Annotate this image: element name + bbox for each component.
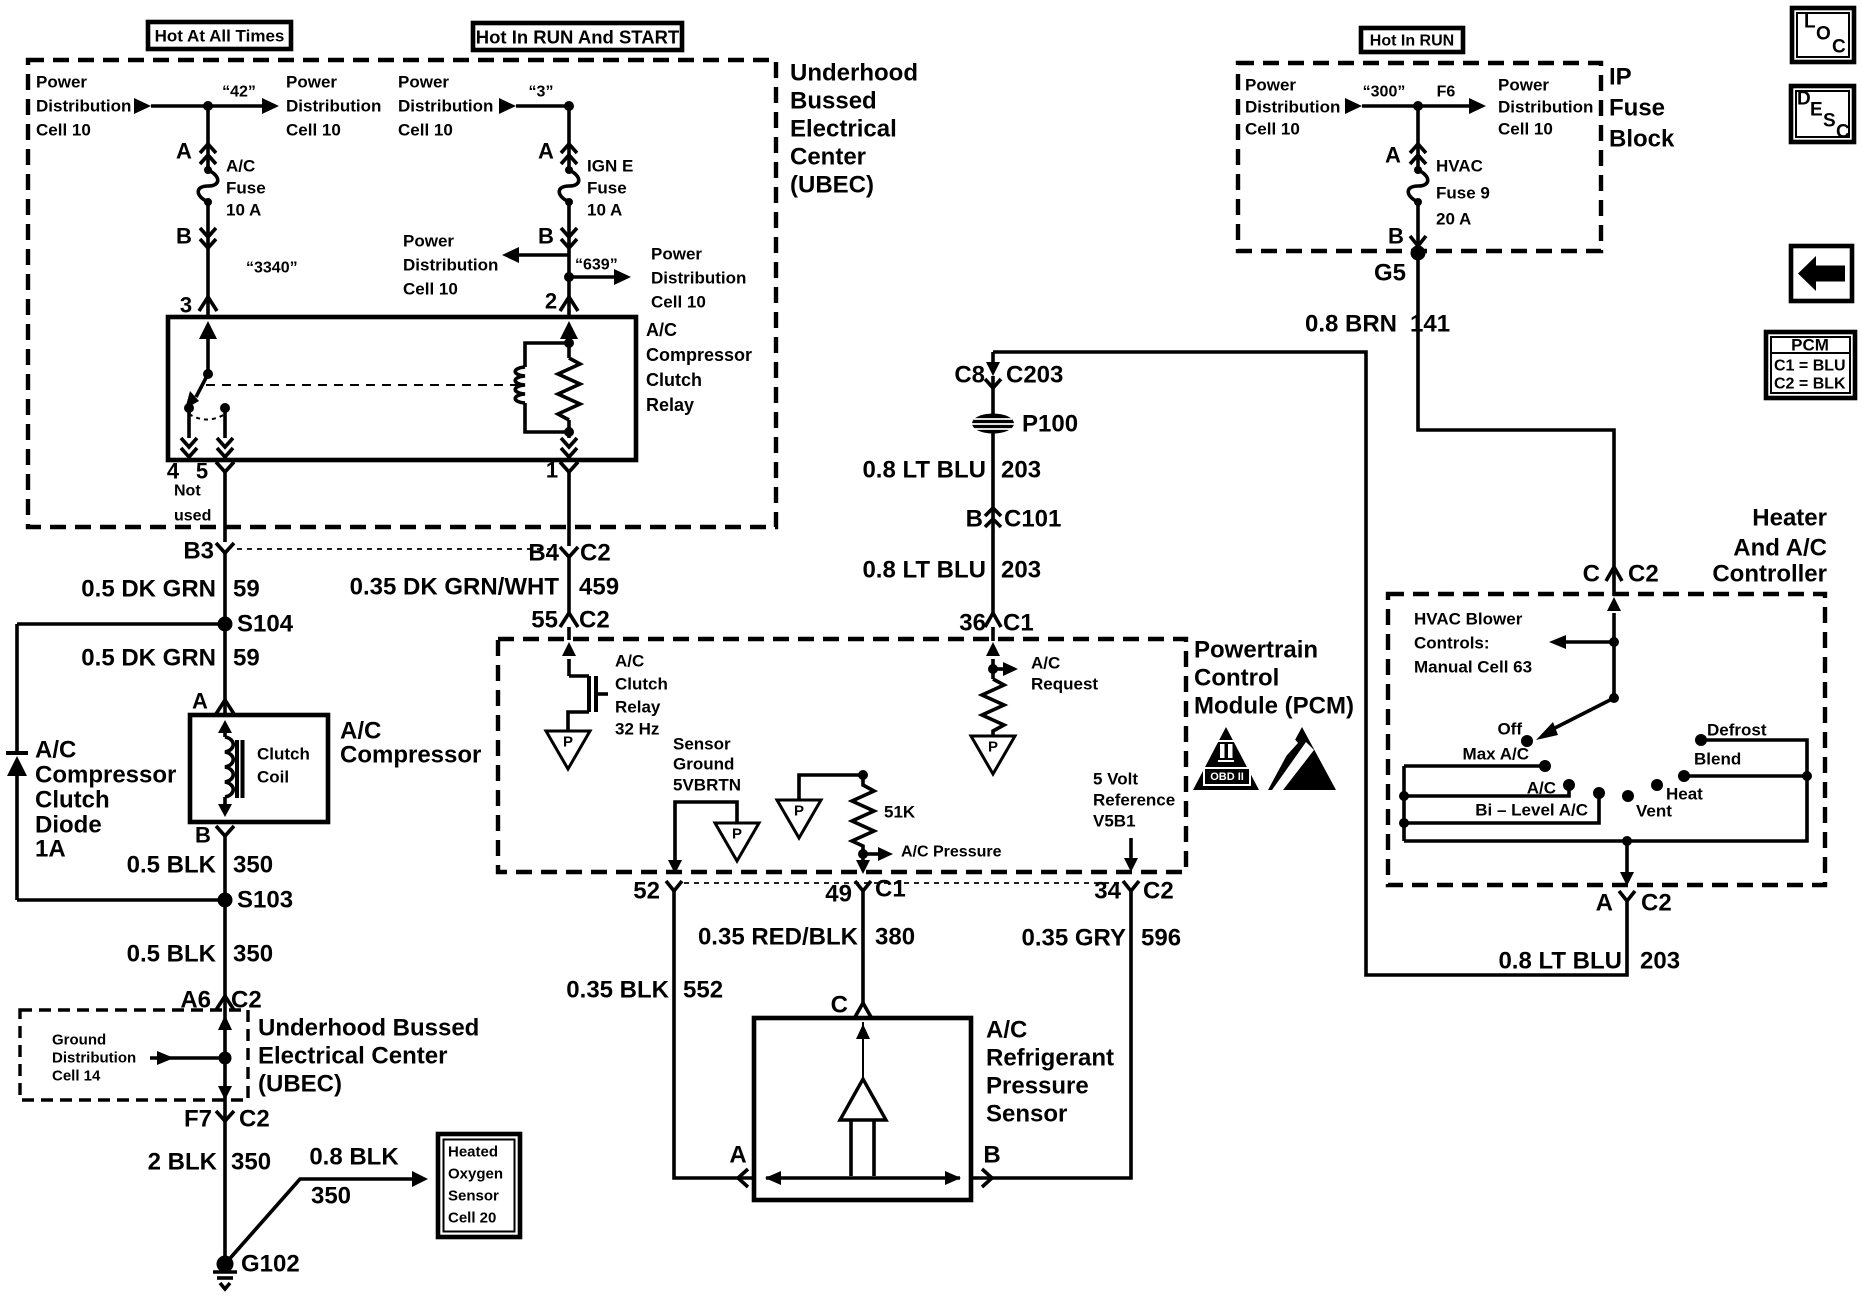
svg-text:Hot In RUN: Hot In RUN bbox=[1370, 33, 1454, 50]
svg-text:Distribution: Distribution bbox=[651, 269, 746, 288]
wire stem through C8 chevron bbox=[991, 376, 995, 388]
svg-text:Hot In RUN And START: Hot In RUN And START bbox=[476, 27, 680, 48]
node 639 junction bbox=[564, 272, 574, 282]
svg-text:10 A: 10 A bbox=[226, 201, 261, 220]
A/C Request tap arrow bbox=[993, 667, 1003, 671]
wire tap right 639 bbox=[569, 275, 614, 279]
label Power Distribution Cell 10 (feed B) bbox=[398, 73, 493, 140]
svg-text:A/C: A/C bbox=[615, 652, 644, 671]
svg-text:A: A bbox=[538, 139, 554, 164]
pin 52 chevron bbox=[666, 881, 682, 891]
Heater and A/C Controller dashed box bbox=[1388, 594, 1825, 885]
relay pin4 wire and arrows bbox=[187, 408, 191, 438]
svg-text:2 BLK: 2 BLK bbox=[148, 1149, 218, 1176]
svg-text:Reference: Reference bbox=[1093, 791, 1175, 810]
wire A/C contact to bus bbox=[1404, 785, 1569, 796]
svg-text:596: 596 bbox=[1141, 925, 1181, 952]
svg-text:Max A/C: Max A/C bbox=[1463, 745, 1529, 764]
pin B3 chevron bbox=[216, 543, 234, 553]
node 3 junction bbox=[564, 101, 574, 111]
svg-text:Distribution: Distribution bbox=[398, 97, 493, 116]
svg-text:“300”: “300” bbox=[1363, 84, 1406, 101]
svg-text:0.35 RED/BLK: 0.35 RED/BLK bbox=[698, 924, 859, 951]
wire Bi-Level contact to bus bbox=[1404, 793, 1599, 823]
fuse IGN E Fuse 10 A element bbox=[559, 166, 579, 206]
svg-text:Controller: Controller bbox=[1712, 561, 1827, 588]
UBEC dashed box bbox=[28, 60, 776, 527]
svg-text:Cell 10: Cell 10 bbox=[36, 121, 91, 140]
svg-text:“3340”: “3340” bbox=[246, 260, 298, 277]
svg-text:Block: Block bbox=[1609, 126, 1675, 153]
svg-text:G102: G102 bbox=[241, 1251, 300, 1278]
svg-text:C2: C2 bbox=[1641, 890, 1672, 917]
bus node at Bi-Level wire bbox=[1399, 818, 1409, 828]
wire Max A/C to left bus bbox=[1404, 764, 1545, 768]
pin A chevrons bbox=[200, 144, 216, 164]
svg-text:Fuse: Fuse bbox=[226, 179, 266, 198]
svg-text:C: C bbox=[831, 992, 848, 1019]
resistor A/C request bbox=[982, 679, 1004, 736]
A/C Request node bbox=[988, 664, 998, 674]
svg-text:O: O bbox=[1816, 24, 1831, 45]
svg-text:1A: 1A bbox=[35, 836, 66, 863]
svg-text:C1 = BLU: C1 = BLU bbox=[1774, 358, 1846, 375]
svg-text:B3: B3 bbox=[183, 538, 214, 565]
svg-text:Ground: Ground bbox=[673, 755, 734, 774]
pin 49 chevron bbox=[855, 881, 871, 891]
svg-text:Control: Control bbox=[1194, 665, 1279, 692]
svg-text:Distribution: Distribution bbox=[403, 256, 498, 275]
svg-text:Controls:: Controls: bbox=[1414, 634, 1490, 653]
pin A chevron compressor bbox=[216, 700, 234, 714]
svg-text:Cell 10: Cell 10 bbox=[398, 121, 453, 140]
relay contact pin 4 bbox=[184, 403, 194, 413]
pin C8 arrow down bbox=[991, 352, 995, 364]
switch arm to Off bbox=[1549, 698, 1614, 731]
svg-text:V5B1: V5B1 bbox=[1093, 812, 1136, 831]
svg-text:A: A bbox=[1385, 143, 1401, 168]
switch contact Vent bbox=[1622, 790, 1634, 802]
wire P100 to C101 bbox=[991, 433, 995, 509]
svg-text:Fuse: Fuse bbox=[1609, 95, 1665, 122]
svg-text:B: B bbox=[538, 224, 554, 249]
svg-text:Power: Power bbox=[403, 232, 454, 251]
label Underhood Bussed Electrical Center (UBEC) lower bbox=[258, 1015, 479, 1098]
label 5 Volt Reference V5B1 bbox=[1093, 770, 1175, 831]
svg-text:Module (PCM): Module (PCM) bbox=[1194, 693, 1354, 720]
svg-text:A/C: A/C bbox=[226, 157, 255, 176]
sensor internal triangle bbox=[840, 1079, 886, 1120]
svg-text:Distribution: Distribution bbox=[36, 97, 131, 116]
svg-text:0.35 DK GRN/WHT: 0.35 DK GRN/WHT bbox=[350, 574, 560, 601]
wire A6 through ground box to F7 bbox=[223, 1010, 227, 1111]
P ground triangle (51K) bbox=[777, 800, 821, 838]
wire node to arrow F6 bbox=[1418, 104, 1469, 108]
relay pin5 wire and arrows bbox=[223, 408, 227, 438]
relay contact pin 5 bbox=[220, 403, 230, 413]
svg-text:Cell 14: Cell 14 bbox=[52, 1068, 101, 1085]
svg-text:203: 203 bbox=[1001, 457, 1041, 484]
svg-text:Distribution: Distribution bbox=[52, 1050, 136, 1067]
svg-text:L: L bbox=[1804, 12, 1816, 33]
svg-text:Center: Center bbox=[790, 144, 866, 171]
svg-text:Bussed: Bussed bbox=[790, 88, 877, 115]
ground distribution node bbox=[219, 1052, 232, 1065]
svg-text:141: 141 bbox=[1410, 311, 1450, 338]
label Heated Oxygen Sensor Cell 20 bbox=[448, 1144, 503, 1227]
pin 55 chevron bbox=[560, 613, 578, 627]
arrow to heated oxygen sensor bbox=[412, 1171, 428, 1187]
label HVAC Blower Controls: Manual Cell 63 bbox=[1414, 610, 1532, 677]
svg-text:Clutch: Clutch bbox=[646, 370, 702, 390]
wire node 3 down to IGN E fuse bbox=[567, 106, 571, 170]
splice S104 bbox=[218, 617, 233, 632]
P ground triangle (clutch relay driver) bbox=[546, 731, 590, 769]
HVAC blower tap node bbox=[1609, 637, 1619, 647]
wire diode branch to S103 bbox=[17, 898, 225, 902]
svg-text:P: P bbox=[794, 803, 804, 820]
svg-text:380: 380 bbox=[875, 924, 915, 951]
relay actuating dashed line bbox=[206, 384, 517, 386]
svg-text:Distribution: Distribution bbox=[286, 97, 381, 116]
svg-text:“639”: “639” bbox=[575, 257, 618, 274]
svg-text:59: 59 bbox=[233, 576, 260, 603]
svg-text:Off: Off bbox=[1497, 720, 1522, 739]
svg-text:F6: F6 bbox=[1437, 84, 1456, 101]
pin B chevrons bbox=[200, 228, 216, 248]
svg-text:A/C: A/C bbox=[1031, 654, 1060, 673]
svg-text:350: 350 bbox=[311, 1183, 351, 1210]
fuse HVAC Fuse 9 20 A element bbox=[1408, 166, 1428, 206]
wire stem through F7 chevron bbox=[223, 1111, 227, 1121]
51K top node bbox=[858, 770, 868, 780]
svg-text:Cell 10: Cell 10 bbox=[651, 293, 706, 312]
arrow to Power Distribution Cell 10 bbox=[262, 98, 279, 114]
svg-text:59: 59 bbox=[233, 645, 260, 672]
svg-text:A/C: A/C bbox=[340, 718, 381, 745]
svg-text:4: 4 bbox=[167, 459, 180, 484]
svg-text:350: 350 bbox=[233, 941, 273, 968]
arrow left to Power Distribution bbox=[502, 247, 519, 263]
svg-text:IP: IP bbox=[1609, 64, 1632, 91]
legend box DESC bbox=[1791, 86, 1854, 143]
svg-text:Diode: Diode bbox=[35, 812, 102, 839]
svg-text:Cell 10: Cell 10 bbox=[286, 121, 341, 140]
diode branch lower wire bbox=[15, 776, 19, 900]
svg-text:Electrical: Electrical bbox=[790, 116, 897, 143]
svg-text:A: A bbox=[1596, 890, 1613, 917]
sensor internal double arrow bbox=[766, 1176, 960, 1180]
pin 1 connector chevron bbox=[560, 462, 578, 472]
svg-text:5: 5 bbox=[196, 459, 208, 484]
svg-text:B: B bbox=[1388, 224, 1404, 249]
svg-text:C2 = BLK: C2 = BLK bbox=[1774, 376, 1846, 393]
svg-text:Defrost: Defrost bbox=[1707, 721, 1767, 740]
legend box LOC bbox=[1792, 8, 1854, 62]
svg-text:1: 1 bbox=[546, 458, 558, 483]
wire fuse B to relay pin 2 bbox=[567, 202, 571, 317]
svg-text:Vent: Vent bbox=[1636, 802, 1672, 821]
wire node to arrow bbox=[208, 104, 262, 108]
svg-text:HVAC: HVAC bbox=[1436, 157, 1483, 176]
node 42 junction bbox=[203, 101, 213, 111]
svg-text:(UBEC): (UBEC) bbox=[258, 1071, 342, 1098]
diode branch upper wire bbox=[15, 624, 19, 753]
label Underhood Bussed Electrical Center (UBEC) bbox=[790, 60, 918, 199]
wire pin1 to B4 bbox=[567, 472, 571, 546]
connector link dashed line 52-49-34 bbox=[684, 882, 1122, 884]
svg-text:Sensor: Sensor bbox=[986, 1101, 1067, 1128]
svg-text:350: 350 bbox=[233, 852, 273, 879]
wire 42 node down to A/C fuse bbox=[206, 106, 210, 170]
A/C Refrigerant Pressure Sensor box bbox=[754, 1018, 971, 1200]
transistor A/C clutch relay driver bbox=[568, 676, 608, 731]
svg-text:S103: S103 bbox=[237, 887, 293, 914]
svg-text:Cell 10: Cell 10 bbox=[403, 280, 458, 299]
svg-text:36: 36 bbox=[959, 610, 986, 637]
svg-text:Cell 10: Cell 10 bbox=[1245, 120, 1300, 139]
left bus wire bbox=[1402, 766, 1406, 841]
relay switch arm bbox=[196, 374, 208, 397]
svg-text:459: 459 bbox=[579, 574, 619, 601]
svg-text:0.35 GRY: 0.35 GRY bbox=[1022, 925, 1127, 952]
svg-text:Request: Request bbox=[1031, 675, 1098, 694]
svg-text:Distribution: Distribution bbox=[1498, 98, 1593, 117]
svg-text:10 A: 10 A bbox=[587, 201, 622, 220]
svg-text:Clutch: Clutch bbox=[257, 745, 310, 764]
svg-text:A: A bbox=[176, 139, 192, 164]
wire compressor B to S103 bbox=[223, 836, 227, 996]
svg-text:And A/C: And A/C bbox=[1733, 535, 1827, 562]
wire stem through C101 bbox=[991, 509, 995, 530]
svg-text:Distribution: Distribution bbox=[1245, 98, 1340, 117]
pin B C101 chevrons bbox=[985, 508, 1001, 527]
wire F7 to G102 bbox=[223, 1121, 227, 1264]
svg-text:3: 3 bbox=[180, 293, 192, 318]
switch contact Heat bbox=[1651, 779, 1663, 791]
svg-text:Manual Cell 63: Manual Cell 63 bbox=[1414, 658, 1532, 677]
label Power Distribution Cell 10 (IP left) bbox=[1245, 76, 1340, 139]
svg-text:A: A bbox=[729, 1142, 746, 1169]
pin 34 chevron bbox=[1123, 881, 1139, 891]
label Ground Distribution Cell 14 bbox=[52, 1032, 136, 1085]
svg-text:49: 49 bbox=[825, 881, 852, 908]
svg-text:(UBEC): (UBEC) bbox=[790, 172, 874, 199]
svg-text:0.8 LT BLU: 0.8 LT BLU bbox=[1498, 948, 1622, 975]
pass-through grommet P100 bbox=[972, 414, 1014, 434]
svg-text:D: D bbox=[1797, 89, 1811, 110]
svg-text:“3”: “3” bbox=[529, 84, 554, 101]
pin B chevron sensor bbox=[982, 1169, 992, 1187]
wire 36 into PCM bbox=[991, 627, 995, 641]
node G5 bbox=[1411, 246, 1426, 261]
svg-text:E: E bbox=[1810, 100, 1823, 121]
svg-text:S: S bbox=[1823, 111, 1836, 132]
svg-text:Powertrain: Powertrain bbox=[1194, 637, 1318, 664]
svg-text:51K: 51K bbox=[884, 803, 916, 822]
relay coil loop wires bbox=[525, 343, 569, 432]
label Sensor Ground 5VBRTN bbox=[673, 735, 741, 795]
svg-text:P100: P100 bbox=[1022, 411, 1078, 438]
clutch coil windings bbox=[225, 737, 233, 797]
wire 51K end arrow bbox=[856, 860, 870, 874]
svg-text:C2: C2 bbox=[1143, 878, 1174, 905]
relay contact dashed arc bbox=[189, 414, 225, 420]
svg-text:Power: Power bbox=[36, 73, 87, 92]
pin B chevrons IGN fuse bbox=[561, 228, 577, 248]
svg-text:HVAC Blower: HVAC Blower bbox=[1414, 610, 1523, 629]
PCM entry arrow at 55 bbox=[562, 642, 576, 656]
wire 55 to PCM bbox=[567, 627, 571, 640]
svg-text:Ground: Ground bbox=[52, 1032, 106, 1049]
svg-text:Coil: Coil bbox=[257, 768, 289, 787]
clutch coil core bars bbox=[235, 740, 239, 798]
relay pin3 entry arrow bbox=[199, 321, 217, 339]
svg-text:203: 203 bbox=[1640, 948, 1680, 975]
svg-text:Clutch: Clutch bbox=[615, 675, 668, 694]
arrow right to Power Distribution bbox=[614, 269, 631, 285]
wire Blend to right bus bbox=[1684, 774, 1807, 778]
svg-text:Heat: Heat bbox=[1666, 785, 1703, 804]
A/C Request entry arrow bbox=[986, 642, 1000, 656]
svg-text:B: B bbox=[966, 506, 983, 533]
label Powertrain Control Module (PCM) bbox=[1194, 637, 1354, 720]
switch pivot node bbox=[1609, 693, 1619, 703]
svg-text:Underhood: Underhood bbox=[790, 60, 918, 87]
wire pin5 to B3 bbox=[223, 472, 227, 542]
svg-text:“42”: “42” bbox=[222, 84, 256, 101]
relay A/C Compressor Clutch Relay box bbox=[168, 317, 636, 460]
svg-text:5 Volt: 5 Volt bbox=[1093, 770, 1138, 789]
svg-text:Power: Power bbox=[1498, 76, 1549, 95]
svg-text:203: 203 bbox=[1001, 557, 1041, 584]
svg-text:20 A: 20 A bbox=[1436, 210, 1471, 229]
svg-text:C1: C1 bbox=[1003, 610, 1034, 637]
svg-text:C2: C2 bbox=[579, 607, 610, 634]
svg-text:C: C bbox=[1832, 37, 1846, 58]
svg-text:IGN E: IGN E bbox=[587, 157, 633, 176]
ESD warning symbol triangle bbox=[1268, 727, 1336, 790]
label A/C Compressor Clutch Diode 1A bbox=[35, 737, 176, 863]
relay coil top node bbox=[564, 338, 574, 348]
label A/C Compressor Clutch Relay bbox=[646, 320, 752, 415]
wire node 300 down to HVAC fuse bbox=[1416, 106, 1420, 170]
wire Defrost to right bus bbox=[1701, 740, 1807, 776]
label Heater And A/C Controller bbox=[1712, 505, 1827, 588]
wire fuse B down to relay pin 3 bbox=[206, 202, 210, 317]
arrow down inside ground box (upper) bbox=[218, 1015, 232, 1030]
pin A6 chevron bbox=[216, 996, 234, 1010]
svg-text:C101: C101 bbox=[1004, 506, 1061, 533]
legend box back arrow bbox=[1791, 246, 1852, 301]
pin 2 chevron bbox=[560, 297, 578, 311]
IP Fuse Block dashed box bbox=[1238, 63, 1601, 251]
svg-text:Clutch: Clutch bbox=[35, 787, 110, 814]
svg-text:P: P bbox=[563, 734, 573, 751]
HVAC blower tap wire bbox=[1566, 640, 1614, 644]
svg-text:Electrical Center: Electrical Center bbox=[258, 1043, 447, 1070]
svg-text:5VBRTN: 5VBRTN bbox=[673, 776, 741, 795]
pin 36 chevron bbox=[985, 613, 1001, 627]
svg-text:Power: Power bbox=[651, 245, 702, 264]
svg-text:52: 52 bbox=[633, 878, 660, 905]
node 300 junction bbox=[1413, 101, 1423, 111]
svg-text:0.35 BLK: 0.35 BLK bbox=[566, 977, 669, 1004]
pin C chevron bbox=[855, 1003, 871, 1017]
pin A chevron sensor bbox=[738, 1169, 748, 1187]
connector link dashed line B3-B4 bbox=[237, 548, 557, 550]
svg-text:Compressor: Compressor bbox=[35, 762, 176, 789]
svg-text:A/C: A/C bbox=[646, 320, 677, 340]
arrow from Power Distribution bbox=[134, 98, 151, 114]
label Not used bbox=[174, 483, 211, 525]
pin A chevrons HVAC fuse bbox=[1410, 144, 1426, 164]
svg-text:0.8 LT BLU: 0.8 LT BLU bbox=[862, 557, 986, 584]
svg-text:Relay: Relay bbox=[646, 395, 694, 415]
ground G102 symbol bbox=[213, 1272, 237, 1289]
heater entry arrow at C bbox=[1607, 597, 1621, 611]
A/C Pressure node bbox=[858, 849, 868, 859]
switch contact Max A/C bbox=[1539, 760, 1551, 772]
svg-text:Sensor: Sensor bbox=[673, 735, 731, 754]
header box Hot In RUN bbox=[1361, 28, 1463, 52]
svg-text:Sensor: Sensor bbox=[448, 1188, 499, 1205]
header box Hot At All Times bbox=[148, 22, 291, 49]
ground distribution tap arrow bbox=[157, 1051, 174, 1065]
5V reference wire and arrow bbox=[1129, 838, 1133, 860]
ground distribution tap wire bbox=[150, 1056, 225, 1060]
svg-text:Oxygen: Oxygen bbox=[448, 1166, 503, 1183]
label A/C Fuse 10 A bbox=[226, 157, 266, 220]
label A/C Refrigerant Pressure Sensor bbox=[986, 1017, 1114, 1128]
svg-text:Cell 10: Cell 10 bbox=[1498, 120, 1553, 139]
svg-text:0.5 BLK: 0.5 BLK bbox=[127, 941, 217, 968]
sensor ground wire bbox=[675, 802, 737, 862]
wire feed B to node 3 bbox=[516, 104, 569, 108]
label Power Distribution Cell 10 (IP right) bbox=[1498, 76, 1593, 139]
svg-text:0.5 DK GRN: 0.5 DK GRN bbox=[81, 645, 216, 672]
wire stem through A6 chevron bbox=[223, 996, 227, 1010]
svg-text:P: P bbox=[988, 739, 998, 756]
svg-text:Pressure: Pressure bbox=[986, 1073, 1089, 1100]
pin B chevron HVAC fuse bbox=[1410, 236, 1426, 246]
Ground Distribution dashed box bbox=[20, 1010, 248, 1100]
P ground triangle (sensor ground) bbox=[715, 823, 759, 861]
resistor 51K bbox=[852, 775, 874, 862]
svg-text:OBD II: OBD II bbox=[1210, 771, 1244, 783]
sensor internal stem bbox=[849, 1120, 853, 1176]
HVAC blower tap arrow bbox=[1549, 635, 1566, 649]
pin A chevron heater bbox=[1619, 891, 1635, 901]
pin 5 connector chevron bbox=[216, 462, 234, 472]
relay pin1 wire and arrows bbox=[567, 420, 571, 438]
svg-text:Cell 20: Cell 20 bbox=[448, 1210, 496, 1227]
svg-text:Fuse 9: Fuse 9 bbox=[1436, 184, 1490, 203]
svg-text:34: 34 bbox=[1094, 878, 1121, 905]
pin 3 chevron bbox=[199, 297, 217, 311]
wire stem through heater C chevron bbox=[1612, 567, 1616, 581]
wire 52 down to sensor pin A bbox=[674, 891, 754, 1178]
wire C101 to PCM pin 36 bbox=[991, 530, 995, 613]
switch contact Blend bbox=[1678, 770, 1690, 782]
wire 0.8 LT BLU heater A to C8 connector bbox=[993, 352, 1627, 975]
svg-text:0.5 DK GRN: 0.5 DK GRN bbox=[81, 576, 216, 603]
svg-text:0.5 BLK: 0.5 BLK bbox=[127, 852, 217, 879]
pin B chevron compressor bbox=[216, 826, 234, 836]
wire C203 to P100 bbox=[991, 388, 995, 415]
svg-text:Compressor: Compressor bbox=[646, 345, 752, 365]
svg-text:Not: Not bbox=[174, 483, 201, 500]
